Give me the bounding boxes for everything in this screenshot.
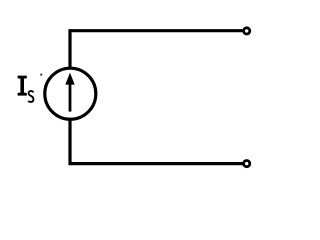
wire (top: from current source top, up and right to top terminal) [70,31,243,67]
terminal (top right, open circle) [244,28,250,34]
current source Is (circle with upward arrow) [45,68,96,119]
wire (bottom: from current source bottom, down and right to bottom terminal) [70,119,243,164]
scan speck near label [40,74,42,76]
label Is (current source value label) [18,76,34,102]
terminal (bottom right, open circle) [244,161,250,167]
